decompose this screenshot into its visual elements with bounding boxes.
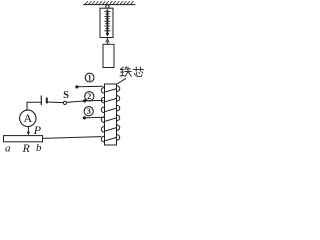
svg-text:3: 3 [87,107,91,116]
svg-text:A: A [23,111,32,125]
svg-text:S: S [63,90,69,101]
svg-text:R: R [22,141,31,155]
svg-text:1: 1 [88,73,92,82]
svg-text:2: 2 [87,92,91,101]
svg-text:P: P [33,123,42,137]
svg-text:b: b [36,142,42,154]
svg-text:a: a [5,143,11,155]
